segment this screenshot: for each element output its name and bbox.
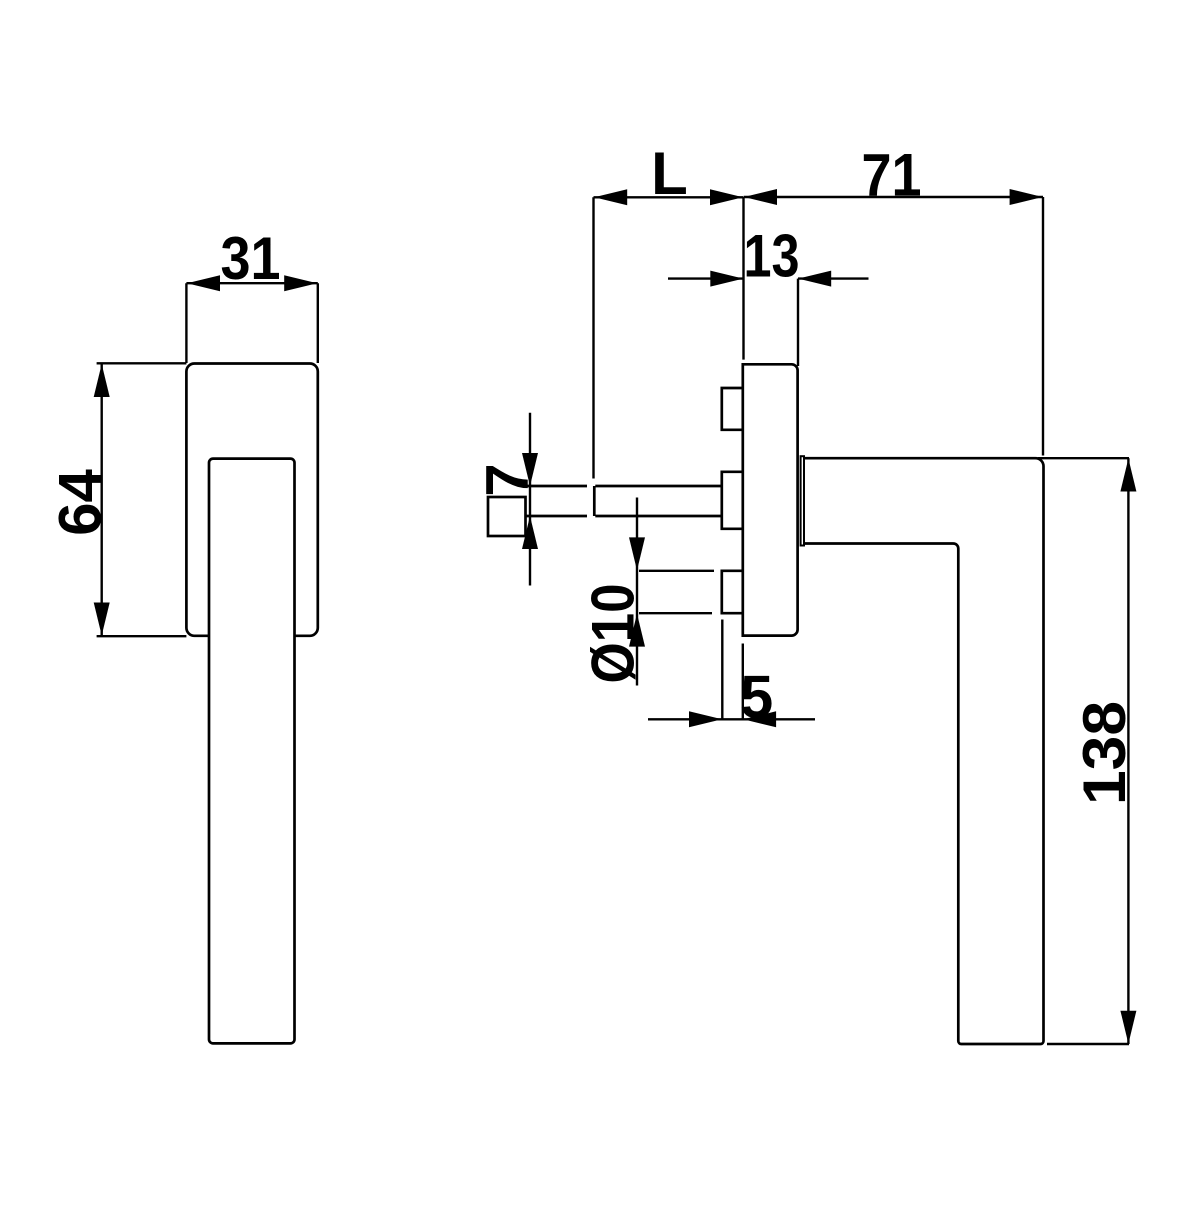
neck collar cap [801,456,804,545]
dimension 64 bottom extension line [97,635,187,637]
dimension 13 dim line right tail [798,277,869,279]
handle neck and grip side view [805,458,1044,1044]
dimension 31 dim line [186,282,317,284]
dimension 7 top arrow [522,453,538,486]
dimension 138 dim line [1127,458,1129,1044]
dimension 71 dim line [744,196,1043,198]
dimension 7 dim line [529,413,531,586]
dimension 138 top arrow [1120,459,1136,492]
svg-text:Ø10: Ø10 [580,584,647,684]
svg-text:7: 7 [474,463,541,496]
spindle hub tab [722,472,743,529]
dimension 64 top extension line [97,362,187,364]
dimension 31 left arrow [187,275,220,291]
dimension 5 left extension line [721,620,723,720]
dimension 31 right extension line [317,283,319,363]
dimension 138 top extension line [1038,457,1129,459]
dimension L dim line [594,196,744,198]
dimension 13 dim line left tail [668,277,744,279]
dimension 71 right arrow [1010,189,1043,205]
dimension 71 right extension line [1042,197,1044,456]
dimension D10 top arrow [629,537,645,570]
dimension 5 left arrow [689,711,722,727]
dimension 13 right extension line [797,279,799,366]
dimension L left extension line [592,197,594,478]
dimension 64 bottom arrow [94,603,110,636]
dimension D10 dim line [636,498,638,686]
svg-text:L: L [651,140,688,207]
spindle shaft top line [526,485,722,488]
spindle shaft bottom line [526,515,722,518]
dimension 31 left extension line [185,283,187,363]
bottom fixing boss tab [722,571,743,613]
spindle shaft butt joint cap [593,486,596,516]
handle grip front view [209,459,295,1044]
dimension L right arrow [710,189,743,205]
dimension 5 dim line [648,718,815,720]
rosette plate side view [743,364,798,635]
dimension 64 top arrow [94,364,110,397]
spindle square end [488,497,526,536]
dimension 7 bottom arrow [522,516,538,549]
dimension D10 bottom arrow [629,614,645,647]
dimension 71 left arrow [744,189,777,205]
svg-text:138: 138 [1071,701,1138,805]
svg-text:64: 64 [47,469,114,536]
dimension 138 bottom arrow [1120,1011,1136,1044]
svg-text:31: 31 [221,225,281,292]
dimension L left arrow [594,189,627,205]
shared center extension line L/71/13 [742,197,744,360]
svg-text:5: 5 [740,664,773,731]
dimension 64 dim line [100,363,102,636]
dimension 5 right arrow [743,711,776,727]
dimension 5 right extension line [742,644,744,720]
dimension D10 bottom extension line [639,612,712,614]
dimension D10 top extension line [639,570,714,572]
top fixing boss tab [722,388,743,430]
svg-text:13: 13 [744,223,800,290]
dimension 138 bottom extension line [1047,1043,1129,1045]
dimension 13 left arrow [710,271,743,287]
svg-text:71: 71 [862,142,922,209]
dimension 13 right arrow [798,271,831,287]
rosette front view [186,364,317,636]
dimension 31 right arrow [284,275,317,291]
